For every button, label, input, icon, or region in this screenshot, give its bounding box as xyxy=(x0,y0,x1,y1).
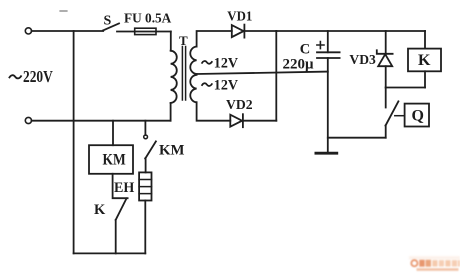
svg-text:VD1: VD1 xyxy=(227,8,252,23)
wire top bus xyxy=(276,30,425,32)
contact of Q (thermostat contact) xyxy=(385,88,387,108)
watermark xyxy=(409,256,460,271)
wire top input xyxy=(32,30,104,32)
svg-text:VD2: VD2 xyxy=(226,97,253,112)
contactor coil KM xyxy=(89,145,133,174)
svg-text:KM: KM xyxy=(159,143,185,159)
diode VD1 xyxy=(232,25,244,37)
contact KM blade xyxy=(145,141,156,158)
node branch left vertical xyxy=(73,31,75,253)
wire KM contact branch xyxy=(144,121,146,135)
wire plus bus vertical xyxy=(275,31,277,121)
svg-text:220V: 220V xyxy=(23,67,53,86)
wire ground branch to contact xyxy=(328,137,386,139)
wire secondary bottom lead xyxy=(197,102,231,120)
wire secondary top lead xyxy=(197,31,232,47)
contact K (relay contact) xyxy=(116,198,127,220)
svg-text:T: T xyxy=(179,33,188,48)
svg-text:Q: Q xyxy=(412,108,424,125)
diode VD2 xyxy=(230,115,242,127)
speck artifact xyxy=(60,10,67,12)
svg-text:220μ: 220μ xyxy=(283,56,315,72)
transformer core xyxy=(181,47,183,101)
capacitor C bottom lead xyxy=(327,58,329,153)
zener diode VD3 xyxy=(385,31,387,54)
wire heater bottom xyxy=(144,201,146,254)
svg-text:KM: KM xyxy=(103,151,127,168)
relay coil K xyxy=(424,31,426,49)
svg-text:FU 0.5A: FU 0.5A xyxy=(124,12,172,27)
svg-text:12V: 12V xyxy=(214,55,238,71)
switch S xyxy=(103,23,119,30)
wire KM coil bottom xyxy=(113,174,128,198)
plus polarity mark xyxy=(317,42,324,49)
capacitor C top lead xyxy=(327,31,329,52)
svg-text:EH: EH xyxy=(114,180,135,196)
wire KM coil branch xyxy=(112,121,114,146)
capacitor C plates xyxy=(317,51,340,53)
wire K bottom to VD3 node xyxy=(386,87,425,89)
svg-text:C: C xyxy=(300,41,310,57)
svg-text:12V: 12V xyxy=(214,77,238,93)
wire primary bottom lead xyxy=(170,103,172,121)
fuse FU 0.5A xyxy=(135,28,156,34)
terminal (bottom-left input) xyxy=(25,117,31,123)
svg-text:S: S xyxy=(104,13,112,28)
svg-text:VD3: VD3 xyxy=(349,52,376,67)
wire fuse corner down to primary xyxy=(170,32,172,51)
transformer secondary lower winding xyxy=(190,75,196,103)
wire bottom bus xyxy=(74,252,146,254)
wire centre tap xyxy=(197,72,328,74)
transformer secondary upper winding xyxy=(190,47,196,75)
svg-text:K: K xyxy=(418,52,431,69)
heater EH xyxy=(139,172,151,200)
wire VD1 cathode to plus bus xyxy=(244,30,276,32)
terminal (top-left input) xyxy=(25,28,31,34)
box Q xyxy=(405,104,429,127)
wire bottom input (220V lower rail) xyxy=(32,120,171,122)
transformer T primary winding xyxy=(171,51,177,103)
wire VD2 cathode to plus bus xyxy=(243,120,276,122)
contact KM terminal xyxy=(144,135,148,139)
wire switch to fuse xyxy=(117,31,171,33)
link contact to Q xyxy=(395,115,405,117)
ground xyxy=(316,152,337,155)
svg-text:K: K xyxy=(94,202,106,218)
